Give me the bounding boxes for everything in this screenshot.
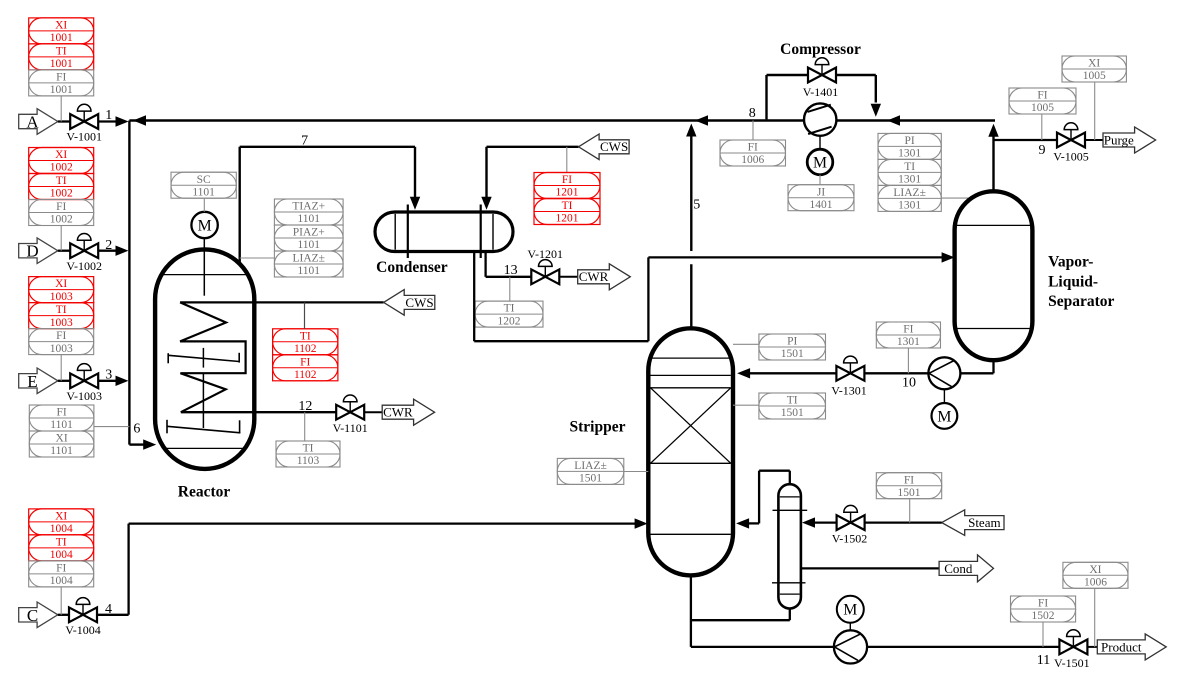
- svg-text:2: 2: [105, 238, 112, 253]
- svg-text:Product: Product: [1101, 639, 1142, 654]
- svg-text:FI: FI: [56, 563, 66, 575]
- svg-text:1103: 1103: [297, 455, 320, 467]
- svg-text:M: M: [937, 408, 951, 425]
- svg-text:1301: 1301: [898, 148, 921, 160]
- svg-text:1005: 1005: [1083, 70, 1106, 82]
- svg-text:V-1004: V-1004: [65, 623, 101, 637]
- svg-text:1002: 1002: [50, 188, 73, 200]
- svg-text:D: D: [26, 242, 38, 261]
- svg-text:A: A: [26, 113, 39, 132]
- svg-text:FI: FI: [56, 201, 66, 213]
- svg-text:FI: FI: [56, 407, 66, 419]
- svg-text:1001: 1001: [50, 84, 73, 96]
- svg-text:CWS: CWS: [405, 295, 433, 310]
- svg-text:1102: 1102: [294, 369, 317, 381]
- svg-text:1002: 1002: [50, 162, 73, 174]
- svg-text:1301: 1301: [897, 336, 920, 348]
- svg-text:TI: TI: [904, 161, 915, 173]
- svg-text:PIAZ+: PIAZ+: [293, 227, 325, 239]
- svg-text:TI: TI: [56, 537, 67, 549]
- svg-text:1004: 1004: [50, 549, 73, 561]
- svg-text:LIAZ±: LIAZ±: [893, 187, 926, 199]
- svg-text:1501: 1501: [781, 348, 804, 360]
- svg-text:Vapor-: Vapor-: [1048, 253, 1093, 270]
- svg-text:1004: 1004: [50, 575, 73, 587]
- svg-text:FI: FI: [904, 474, 914, 486]
- svg-text:1004: 1004: [50, 523, 73, 535]
- svg-text:V-1502: V-1502: [832, 532, 868, 546]
- svg-text:1301: 1301: [898, 174, 921, 186]
- svg-text:1501: 1501: [898, 487, 921, 499]
- svg-text:XI: XI: [55, 511, 67, 523]
- svg-text:8: 8: [749, 106, 756, 121]
- svg-text:1501: 1501: [781, 407, 804, 419]
- svg-text:TI: TI: [562, 200, 573, 212]
- svg-text:V-1002: V-1002: [66, 259, 102, 273]
- svg-text:1001: 1001: [50, 32, 73, 44]
- svg-text:1101: 1101: [50, 419, 73, 431]
- svg-text:10: 10: [902, 376, 916, 391]
- svg-text:1202: 1202: [498, 315, 521, 327]
- svg-text:LIAZ±: LIAZ±: [293, 253, 326, 265]
- svg-text:Liquid-: Liquid-: [1048, 274, 1098, 291]
- svg-text:XI: XI: [1089, 564, 1101, 576]
- svg-text:Separator: Separator: [1048, 293, 1114, 310]
- svg-text:SC: SC: [197, 174, 211, 186]
- svg-text:XI: XI: [1088, 58, 1100, 70]
- svg-text:V-1101: V-1101: [333, 421, 368, 435]
- svg-text:M: M: [198, 217, 212, 234]
- svg-text:XI: XI: [55, 278, 67, 290]
- svg-text:M: M: [813, 154, 827, 171]
- svg-text:CWR: CWR: [579, 269, 609, 284]
- svg-text:CWS: CWS: [600, 139, 628, 154]
- svg-text:FI: FI: [56, 72, 66, 84]
- svg-text:1101: 1101: [297, 239, 320, 251]
- svg-text:1201: 1201: [556, 187, 579, 199]
- svg-text:Cond: Cond: [944, 561, 973, 576]
- svg-text:Compressor: Compressor: [780, 41, 861, 58]
- svg-text:5: 5: [693, 197, 700, 212]
- svg-text:V-1401: V-1401: [803, 85, 839, 99]
- svg-text:1201: 1201: [556, 213, 579, 225]
- svg-text:Reactor: Reactor: [178, 484, 231, 501]
- svg-text:FI: FI: [903, 324, 913, 336]
- svg-text:E: E: [27, 372, 37, 391]
- svg-text:V-1005: V-1005: [1053, 149, 1089, 163]
- svg-text:TI: TI: [56, 175, 67, 187]
- svg-text:1003: 1003: [50, 291, 73, 303]
- svg-text:6: 6: [133, 422, 140, 437]
- svg-text:Purge: Purge: [1104, 132, 1134, 147]
- svg-text:Stripper: Stripper: [570, 419, 626, 436]
- svg-text:4: 4: [105, 602, 112, 617]
- svg-text:V-1201: V-1201: [527, 247, 563, 261]
- svg-text:Steam: Steam: [968, 515, 1001, 530]
- svg-text:JI: JI: [817, 186, 825, 198]
- svg-text:7: 7: [301, 133, 308, 148]
- svg-text:PI: PI: [787, 336, 797, 348]
- svg-text:9: 9: [1039, 143, 1046, 158]
- svg-text:TI: TI: [303, 443, 314, 455]
- svg-text:3: 3: [105, 368, 112, 383]
- svg-text:1101: 1101: [297, 265, 320, 277]
- svg-text:FI: FI: [1038, 598, 1048, 610]
- svg-text:XI: XI: [55, 149, 67, 161]
- svg-text:PI: PI: [905, 135, 915, 147]
- svg-text:1: 1: [105, 108, 112, 123]
- svg-text:TIAZ+: TIAZ+: [292, 201, 325, 213]
- svg-text:1003: 1003: [50, 343, 73, 355]
- svg-text:FI: FI: [748, 142, 758, 154]
- svg-text:C: C: [27, 606, 38, 625]
- svg-text:V-1001: V-1001: [66, 130, 102, 144]
- svg-text:LIAZ±: LIAZ±: [574, 460, 607, 472]
- svg-text:1301: 1301: [898, 200, 921, 212]
- svg-text:1005: 1005: [1031, 102, 1054, 114]
- svg-text:1006: 1006: [741, 154, 764, 166]
- svg-text:XI: XI: [55, 20, 67, 32]
- svg-text:CWR: CWR: [383, 405, 413, 420]
- svg-text:V-1301: V-1301: [831, 383, 867, 397]
- svg-text:Condenser: Condenser: [376, 259, 448, 276]
- svg-text:1002: 1002: [50, 214, 73, 226]
- svg-text:1003: 1003: [50, 317, 73, 329]
- svg-text:FI: FI: [1037, 90, 1047, 102]
- svg-text:1001: 1001: [50, 58, 73, 70]
- svg-text:FI: FI: [300, 356, 310, 368]
- svg-text:1501: 1501: [579, 473, 602, 485]
- svg-text:V-1501: V-1501: [1054, 656, 1090, 670]
- svg-text:1101: 1101: [192, 186, 215, 198]
- svg-text:1101: 1101: [297, 213, 320, 225]
- svg-text:TI: TI: [787, 395, 798, 407]
- svg-text:1006: 1006: [1084, 577, 1107, 589]
- svg-text:V-1003: V-1003: [66, 389, 102, 403]
- svg-text:FI: FI: [562, 174, 572, 186]
- svg-text:TI: TI: [56, 304, 67, 316]
- svg-text:13: 13: [504, 263, 518, 278]
- svg-text:M: M: [843, 602, 857, 619]
- svg-text:1502: 1502: [1032, 610, 1055, 622]
- svg-text:TI: TI: [300, 330, 311, 342]
- svg-text:TI: TI: [56, 46, 67, 58]
- svg-text:1401: 1401: [810, 199, 833, 211]
- svg-text:1102: 1102: [294, 343, 317, 355]
- svg-text:1101: 1101: [50, 445, 73, 457]
- svg-text:XI: XI: [56, 433, 68, 445]
- svg-text:12: 12: [298, 399, 312, 414]
- svg-text:FI: FI: [56, 330, 66, 342]
- svg-text:TI: TI: [504, 303, 515, 315]
- svg-text:11: 11: [1037, 653, 1050, 668]
